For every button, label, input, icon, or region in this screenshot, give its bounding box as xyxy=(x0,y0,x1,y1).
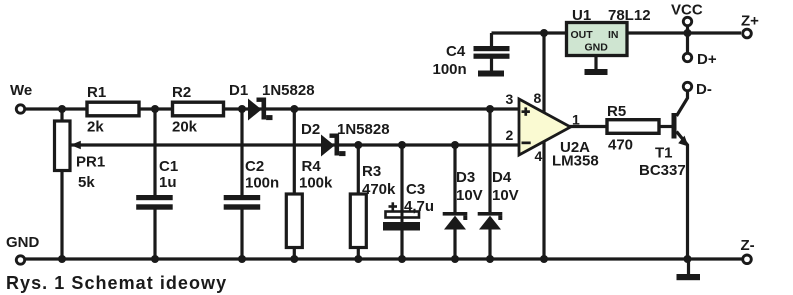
node rail PR1 xyxy=(58,255,66,263)
node rail C1 xyxy=(151,255,159,263)
wire C1 vertical xyxy=(153,109,156,196)
svg-text:100n: 100n xyxy=(433,61,467,78)
ground (U1) xyxy=(585,69,608,75)
svg-text:D1: D1 xyxy=(229,82,248,99)
capacitor C2 xyxy=(224,195,261,200)
wire op-amp pin 8 vertical xyxy=(542,33,545,114)
svg-text:Rys. 1 Schemat ideowy: Rys. 1 Schemat ideowy xyxy=(6,273,227,293)
terminal VCC xyxy=(683,17,691,25)
terminal We xyxy=(16,105,24,113)
resistor R3 xyxy=(350,194,366,248)
potentiometer PR1 xyxy=(55,121,71,171)
svg-text:2: 2 xyxy=(506,127,514,143)
svg-text:GND: GND xyxy=(585,42,609,54)
svg-text:D3: D3 xyxy=(456,169,475,186)
svg-text:R4: R4 xyxy=(302,158,322,175)
wire op-amp output to R5 xyxy=(569,125,607,128)
node R1/R2/C1 xyxy=(151,105,159,113)
svg-text:1N5828: 1N5828 xyxy=(337,121,390,138)
svg-text:C4: C4 xyxy=(446,43,466,60)
svg-text:10V: 10V xyxy=(456,187,483,204)
zener diode D4 10V xyxy=(478,212,503,230)
resistor R5 xyxy=(607,120,659,134)
svg-text:D2: D2 xyxy=(301,121,320,138)
wire D+ terminal stub xyxy=(686,33,689,53)
svg-text:100n: 100n xyxy=(245,175,279,192)
wire D3 vertical xyxy=(453,145,456,213)
wire C3 vertical xyxy=(400,145,403,212)
svg-text:GND: GND xyxy=(6,234,40,251)
node D1/R4/row1 xyxy=(290,105,298,113)
svg-text:LM358: LM358 xyxy=(552,153,599,170)
resistor R4 xyxy=(286,194,302,248)
svg-text:BC337: BC337 xyxy=(639,162,686,179)
capacitor C1 xyxy=(136,195,173,200)
svg-text:1: 1 xyxy=(572,112,580,128)
wire row2: PR1 wiper to op-amp pin 2 xyxy=(71,143,518,146)
node rail R4 xyxy=(290,255,298,263)
svg-text:4,7u: 4,7u xyxy=(404,198,434,215)
svg-text:2k: 2k xyxy=(87,119,104,136)
diode D2 1N5828 xyxy=(321,134,346,157)
svg-text:T1: T1 xyxy=(655,145,673,162)
svg-text:470: 470 xyxy=(608,137,633,154)
svg-text:C2: C2 xyxy=(245,158,264,175)
svg-text:D4: D4 xyxy=(492,169,512,186)
svg-text:R3: R3 xyxy=(362,163,381,180)
op-amp U2A LM358 xyxy=(519,99,571,155)
svg-text:1u: 1u xyxy=(159,174,177,191)
node rail T1 emitter xyxy=(684,255,692,263)
wire R3 vertical xyxy=(357,145,360,195)
node We/PR1/R1 xyxy=(58,105,66,113)
svg-text:We: We xyxy=(10,82,32,99)
svg-text:100k: 100k xyxy=(299,175,333,192)
svg-text:4: 4 xyxy=(535,148,543,164)
wire PR1 top stub xyxy=(60,109,63,121)
terminal Z- xyxy=(743,255,752,264)
svg-text:R5: R5 xyxy=(607,103,626,120)
svg-text:R1: R1 xyxy=(87,84,106,101)
node junctions row1 xyxy=(58,29,692,263)
ground (T1 emitter / output minus) xyxy=(677,274,701,280)
node R2/D1/C2 xyxy=(238,105,246,113)
wire R5 to T1 base xyxy=(659,125,672,128)
svg-text:PR1: PR1 xyxy=(76,154,105,171)
resistor R2 xyxy=(173,102,224,116)
transistor T1 BC337 xyxy=(672,113,677,139)
node rail pin4 xyxy=(540,255,548,263)
ground (C4) xyxy=(478,71,504,77)
node rail C3 xyxy=(398,255,406,263)
svg-text:Z-: Z- xyxy=(741,237,755,254)
node D2/R3 xyxy=(354,141,362,149)
svg-text:C1: C1 xyxy=(159,158,178,175)
node VCC top wire / pin8 xyxy=(540,29,548,37)
terminal D- xyxy=(683,82,691,90)
svg-text:20k: 20k xyxy=(172,119,198,136)
node D4/row1 xyxy=(486,105,494,113)
svg-text:IN: IN xyxy=(608,29,619,41)
node VCC/D+ xyxy=(684,29,692,37)
svg-text:C3: C3 xyxy=(406,181,425,198)
wire C4 ground stub xyxy=(490,58,493,71)
node rail D3 xyxy=(451,255,459,263)
svg-text:Z+: Z+ xyxy=(741,13,759,30)
wire D4 vertical xyxy=(488,109,491,213)
capacitor C4 xyxy=(474,46,510,51)
wire bottom GND rail xyxy=(25,257,742,260)
svg-text:D-: D- xyxy=(696,81,712,98)
wire row1: We to op-amp pin 3 xyxy=(25,107,518,110)
wire R4 vertical xyxy=(293,109,296,195)
node C3/row2 xyxy=(398,141,406,149)
svg-text:78L12: 78L12 xyxy=(608,7,651,24)
wire C4 top stub xyxy=(490,33,493,47)
wire T1 emitter down to rail xyxy=(677,132,688,260)
node D3/row2 xyxy=(451,141,459,149)
node rail C2 xyxy=(238,255,246,263)
zener diode D3 10V xyxy=(443,212,468,230)
svg-text:5k: 5k xyxy=(78,174,95,191)
svg-text:U1: U1 xyxy=(572,7,591,24)
svg-text:1N5828: 1N5828 xyxy=(262,82,315,99)
resistor R1 xyxy=(87,102,139,116)
wire op-amp pin 4 vertical xyxy=(542,140,545,259)
node rail D4 xyxy=(486,255,494,263)
wire VCC terminal stub xyxy=(686,26,689,33)
wire PR1 bottom stub xyxy=(60,170,63,259)
svg-text:OUT: OUT xyxy=(571,29,594,41)
svg-text:10V: 10V xyxy=(492,187,519,204)
wire D- to T1 collector xyxy=(677,91,688,116)
capacitor C3 (electrolytic, polarized) xyxy=(386,212,420,218)
svg-text:470k: 470k xyxy=(362,181,396,198)
svg-text:R2: R2 xyxy=(172,84,191,101)
diode D1 1N5828 xyxy=(248,98,273,121)
svg-text:D+: D+ xyxy=(697,51,717,68)
svg-text:8: 8 xyxy=(534,90,542,106)
terminal GND xyxy=(16,256,24,264)
node rail R3 xyxy=(354,255,362,263)
regulator U1 78L12 xyxy=(567,23,628,56)
svg-text:VCC: VCC xyxy=(671,2,703,19)
wire top VCC line xyxy=(492,31,742,34)
terminal D+ xyxy=(683,53,691,61)
wire U1 GND stub xyxy=(594,55,597,70)
wire C2 vertical xyxy=(240,109,243,196)
wire T1 ground stub xyxy=(687,259,690,275)
terminal Z+ xyxy=(743,29,752,38)
svg-text:3: 3 xyxy=(506,91,514,107)
